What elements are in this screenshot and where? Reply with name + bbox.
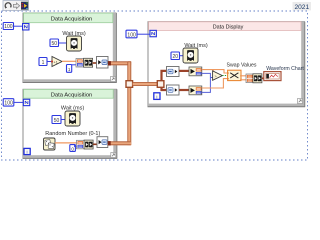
iteration terminal i (loop 2) <box>24 148 30 155</box>
loop 1 frame <box>23 13 117 83</box>
channel pipe to display loop <box>133 82 158 86</box>
channel junction (split) <box>157 81 164 88</box>
outer dashed selection border <box>2 11 308 160</box>
wire increment to bundle (salmon DBL) <box>62 60 76 62</box>
loop 1 header band <box>24 13 113 23</box>
svg-text:2021: 2021 <box>294 4 309 11</box>
wires swap to bundle <box>241 76 246 80</box>
svg-text:i: i <box>156 94 157 100</box>
svg-text:Data Display: Data Display <box>213 25 244 31</box>
wire 50 to wait (loop 1) <box>59 42 67 44</box>
coercion dot <box>51 60 53 62</box>
Wait ms node (loop 1) <box>67 36 82 51</box>
loop 2 resize handle <box>111 153 116 158</box>
display loop frame <box>148 22 305 107</box>
wire bundle to writer (loop 2) <box>93 143 97 145</box>
svg-text:i: i <box>27 150 28 156</box>
channel writer node (loop 1) <box>97 57 109 69</box>
svg-text:100: 100 <box>127 32 136 38</box>
orange wire unbundle2 to swap <box>202 79 228 88</box>
constant 50 (loop 1) <box>50 39 59 47</box>
channel pipe vertical trunk <box>127 61 131 145</box>
constant 0 (loop 2) <box>70 145 76 152</box>
constant 100 (loop 2 count) <box>3 99 14 106</box>
constant 50 (loop 2) <box>52 116 61 124</box>
wire reader1 to unbundle1 <box>179 70 189 72</box>
constant 1 (lower, loop 1) <box>67 65 72 73</box>
svg-text:Random Number (0-1): Random Number (0-1) <box>45 131 100 137</box>
increment node (loop 1) <box>52 57 62 67</box>
svg-text:20: 20 <box>173 54 179 60</box>
unbundle node 1 <box>189 67 202 76</box>
svg-text:Swap Values: Swap Values <box>227 63 257 69</box>
wire dice to bundle (salmon DBL) <box>55 142 77 144</box>
boolean wire compare to swap <box>222 75 227 77</box>
unbundle node 2 <box>189 86 202 95</box>
wire bundle to writer (loop 1) <box>93 62 97 64</box>
svg-text:0: 0 <box>71 146 74 151</box>
svg-text:100: 100 <box>4 24 13 30</box>
iteration terminal i (display) <box>154 93 160 101</box>
bundle node (display) <box>246 74 262 83</box>
channel writer node (loop 2) <box>97 137 108 148</box>
channel reader node 1 <box>167 67 180 77</box>
wire bundle to chart <box>262 77 264 79</box>
svg-text:+1: +1 <box>54 60 58 64</box>
toolbar icon: drag anchor circular arrows <box>5 3 11 8</box>
display resize handle <box>298 99 303 104</box>
svg-text:Data Acquisition: Data Acquisition <box>51 92 93 98</box>
random number dice node <box>44 138 56 150</box>
Swap Values node <box>227 70 241 80</box>
loop 2 frame <box>23 89 117 158</box>
loop 2 header band <box>24 89 114 98</box>
wire 100 to N (loop 1) <box>14 25 24 27</box>
channel junction (merge) <box>126 81 133 88</box>
wire 50 to wait (loop 2) <box>61 119 65 121</box>
blue wire unbundle1/unbundle2 to compare <box>202 73 213 92</box>
svg-text:50: 50 <box>52 41 58 47</box>
Waveform Chart terminal <box>264 72 281 81</box>
N terminal (loop 2) <box>23 99 29 105</box>
wire 0 to bundle (loop 2) <box>75 145 77 147</box>
N terminal (loop 1) <box>23 24 29 30</box>
N terminal (display) <box>150 30 156 36</box>
orange wire unbundle1 to swap (with branch to compare) <box>202 70 228 73</box>
toolbar icon: arrow <box>13 3 19 9</box>
snippet toolbar background <box>3 1 29 11</box>
wire 20 to wait (display) <box>180 55 184 57</box>
wire 100 to N (loop 2) <box>14 101 23 103</box>
constant 20 (display) <box>171 52 180 60</box>
svg-text:50: 50 <box>54 118 60 124</box>
wire junction to reader 2 <box>162 87 167 90</box>
constant 1 (increment input, loop 1) <box>39 58 47 66</box>
wire reader2 to unbundle2 <box>179 89 189 91</box>
wire 1 to increment <box>47 61 52 63</box>
2021 version tag <box>293 2 312 10</box>
svg-text:100: 100 <box>4 101 13 107</box>
wire 100 to N (display) <box>137 33 150 35</box>
constant 100 (display count) <box>126 30 137 38</box>
channel pipe from writer 2 <box>108 141 131 145</box>
wire junction to reader 1 <box>162 71 167 81</box>
constant 100 (loop 1 count) <box>3 23 13 30</box>
Wait ms node (loop 2) <box>65 111 80 126</box>
svg-text:1: 1 <box>42 60 45 66</box>
channel pipe from writer 1 <box>108 61 131 65</box>
wire lower 1 to bundle (loop 1) <box>72 64 76 66</box>
svg-text:Data Acquisition: Data Acquisition <box>51 17 93 23</box>
svg-text:1: 1 <box>68 67 71 72</box>
bundle cluster node (loop 1) <box>76 58 93 67</box>
toolbar icon: LabVIEW vi icon <box>21 2 28 9</box>
Wait ms node (display) <box>183 48 198 63</box>
compare greater node <box>213 71 223 80</box>
channel reader node 2 <box>167 85 180 95</box>
loop 1 resize handle <box>111 77 116 82</box>
display header band <box>149 22 301 31</box>
bundle cluster node (loop 2) <box>77 140 94 149</box>
